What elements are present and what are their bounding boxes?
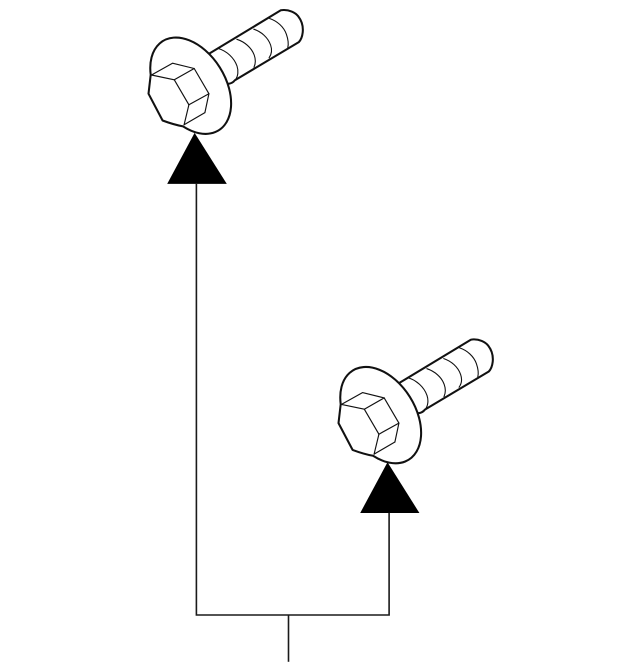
callout stem (short drop line at bottom centre) [288,615,290,662]
arrow 1 (points to bolt 1) [167,133,227,184]
arrow 2 (points to bolt 2) [360,462,419,513]
flange + hex silhouette outline [149,38,232,134]
hex head top face [152,63,195,80]
hex head edge V6-V5 [189,94,209,105]
bolt 2 (hex flange bolt, lower right) [339,339,493,463]
hex head edge V6-V4 [184,105,189,125]
thread arc 3 [254,29,272,58]
bolt 1 (hex flange bolt, upper left) [149,10,303,134]
shank outline with rounded tip [209,10,302,84]
hex head edge P2-V5 [194,69,209,94]
leader line (arrow 1 down, across bottom, up to arrow 2) [196,183,389,615]
thread arc 1 (at shank base) [218,49,238,81]
hex head edge P3-V6 [174,80,189,105]
hex head edge V7-V5 [205,94,209,113]
thread arc 4 (near tip) [270,19,289,48]
hex head edge V4-V7 [184,113,205,125]
thread arc 2 [237,39,255,67]
